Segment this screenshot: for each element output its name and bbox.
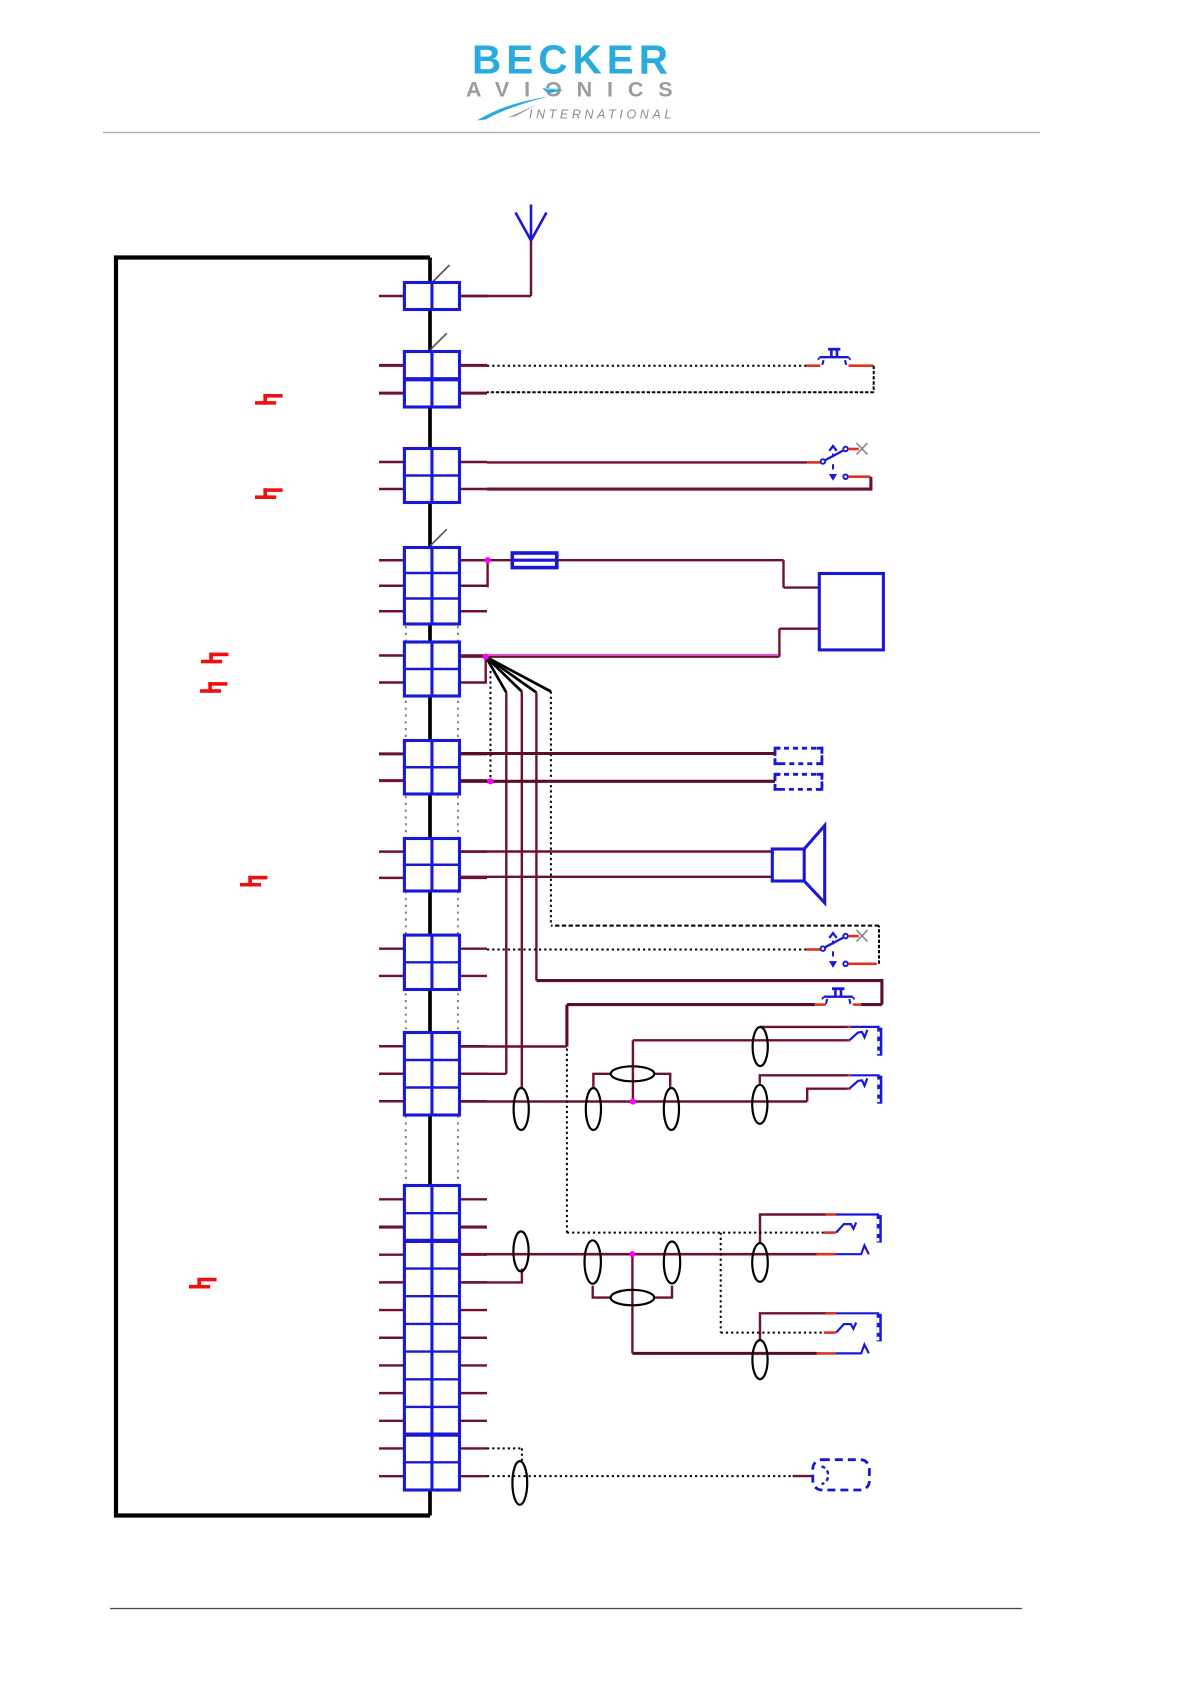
svg-text:AVIONICS: AVIONICS <box>466 78 688 102</box>
svg-text:INTERNATIONAL: INTERNATIONAL <box>529 108 675 122</box>
svg-text:BECKER: BECKER <box>472 37 673 83</box>
